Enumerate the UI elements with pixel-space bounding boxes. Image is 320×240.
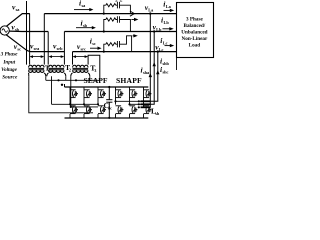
wire T1 sec right down to star bus <box>45 76 47 80</box>
SHAPF leg 1 top switch <box>116 90 124 98</box>
wire T1 sec left feed to SEAPF <box>29 76 93 113</box>
SEAPF leg 3 top switch <box>98 90 106 98</box>
inductor Lsh c-phase bar <box>141 100 151 102</box>
wire riser c <box>104 44 106 51</box>
wire phase c right segment <box>73 51 177 53</box>
wire T2 sec left feed to SEAPF <box>51 76 53 104</box>
svg-text:La: La <box>166 4 172 9</box>
inductor Lsh a-phase bar <box>141 106 151 108</box>
SEAPF leg 1 bottom switch <box>70 106 78 114</box>
wire source to phase b <box>9 30 48 32</box>
arrow v_srb measure <box>48 55 64 58</box>
arrow v_src measure <box>72 55 88 58</box>
junction dots on star bus <box>57 79 77 81</box>
RC branch phase a <box>104 2 131 14</box>
wire step down to line c <box>120 36 132 52</box>
svg-text:Load: Load <box>189 43 201 49</box>
svg-text:Unbalanced: Unbalanced <box>181 30 207 36</box>
node v_Lc <box>157 50 159 52</box>
wire T2 right rise to phase b <box>63 32 65 65</box>
arrow v_sra measure <box>29 55 44 58</box>
shunt tap wire c <box>150 52 158 102</box>
svg-text:2: 2 <box>69 68 71 73</box>
rail end dot <box>61 84 63 86</box>
RC branch phase c <box>104 36 132 52</box>
svg-text:srb: srb <box>57 46 64 51</box>
wire T3 sec left feed to SEAPF <box>71 76 98 107</box>
resistor Rse-b <box>106 18 117 21</box>
inductor Lsh b-phase bar <box>141 103 151 105</box>
SEAPF leg 2 top switch <box>84 90 92 98</box>
SEAPF leg 3 bottom switch <box>98 106 106 114</box>
svg-text:sb: sb <box>83 23 88 28</box>
svg-text:Non-Linear: Non-Linear <box>182 36 208 42</box>
capacitor Cse-a <box>117 2 119 8</box>
svg-text:sc: sc <box>17 46 21 51</box>
svg-text:sc: sc <box>92 41 96 46</box>
wire source to phase c <box>6 35 64 52</box>
SHAPF leg 3 bottom switch <box>144 106 152 114</box>
wire riser b <box>104 20 106 32</box>
wire vertical left of T1 <box>26 1 28 65</box>
capacitor Cse-c <box>117 41 119 47</box>
node dot b-rc <box>103 30 105 32</box>
svg-text:3 Phase: 3 Phase <box>0 52 18 58</box>
svg-text:3: 3 <box>94 68 96 73</box>
node dot a-rc <box>103 13 105 15</box>
arrow on branch b <box>131 18 138 21</box>
wire T3 right terminal corner to bridge <box>88 55 100 80</box>
wire T2 sec right down to star bus <box>65 76 67 80</box>
transformer T2 <box>47 65 66 76</box>
svg-text:Lc: Lc <box>163 41 168 46</box>
wire bottom dc rail <box>65 117 149 119</box>
svg-text:Balanced/: Balanced/ <box>184 23 206 29</box>
wire leg2 output <box>130 103 142 105</box>
SHAPF leg 2 bottom switch <box>130 106 138 114</box>
junction dots SEAPF mid <box>69 103 99 108</box>
wire down to line b <box>120 20 131 32</box>
wire phase b drop to T2 <box>47 32 49 65</box>
svg-text:3 Phase: 3 Phase <box>186 17 203 23</box>
dc bus rails <box>65 84 149 118</box>
wire phase a right segment <box>44 13 176 15</box>
arrow on branch c <box>133 34 138 37</box>
secondary wiring <box>29 76 100 113</box>
svg-text:Lb: Lb <box>156 27 162 32</box>
shunt tap wire b <box>150 32 154 105</box>
wire T3 sec right down to star bus <box>89 76 91 80</box>
transformer T1 <box>29 65 46 76</box>
load box <box>177 3 214 58</box>
capacitor label cropped <box>115 0 122 1</box>
svg-text:SHAPF: SHAPF <box>116 76 142 85</box>
dc link capacitor Cdc <box>106 87 112 118</box>
svg-text:shc: shc <box>163 69 169 74</box>
wire star bus <box>46 79 100 81</box>
svg-text:La: La <box>148 7 154 12</box>
svg-text:Source: Source <box>2 75 18 81</box>
node v_Lb <box>153 30 155 32</box>
open arrowhead on line a <box>130 11 135 16</box>
svg-text:src: src <box>81 46 87 51</box>
SHAPF leg 1 bottom switch <box>116 106 124 114</box>
shunt tap wire a <box>149 14 151 108</box>
svg-text:sb: sb <box>15 27 20 32</box>
wire phase a drop to T1 <box>29 14 31 65</box>
svg-text:Input: Input <box>2 59 15 65</box>
wire phase c drop to T3 <box>72 52 74 65</box>
SHAPF output wires <box>116 101 142 104</box>
node v_La <box>149 12 151 14</box>
resistor Rse-c <box>106 43 117 46</box>
svg-text:sra: sra <box>34 46 41 51</box>
node dot c-rc <box>103 51 105 53</box>
svg-text:Lc: Lc <box>159 47 164 52</box>
capacitor Cse-b <box>117 16 119 22</box>
wire down to line a <box>120 5 131 13</box>
svg-text:SEAPF: SEAPF <box>84 76 108 85</box>
svg-text:Voltage: Voltage <box>1 67 18 73</box>
SHAPF leg 2 top switch <box>130 90 138 98</box>
wire T1 right rise to phase a <box>43 14 45 65</box>
AC source Vs <box>0 26 9 35</box>
SEAPF leg 1 wire <box>69 87 71 118</box>
svg-text:sha: sha <box>143 70 150 75</box>
SEAPF leg 2 wire <box>83 87 85 118</box>
wire top dc rail <box>65 86 149 88</box>
SEAPF leg 1 top switch <box>70 90 78 98</box>
svg-text:shb: shb <box>163 61 170 66</box>
wire riser a <box>104 5 106 13</box>
svg-text:Lb: Lb <box>164 20 170 25</box>
wire phase b right segment <box>64 31 176 33</box>
SEAPF leg 3 wire <box>97 87 99 118</box>
rail left stub <box>64 84 66 87</box>
svg-text:sh: sh <box>155 111 160 116</box>
wire leg1 output <box>116 100 142 102</box>
SHAPF leg 3 wire <box>143 87 145 118</box>
SHAPF leg 3 top switch <box>144 90 152 98</box>
junction dots SHAPF outputs <box>114 100 139 108</box>
SHAPF leg 2 wire <box>129 87 131 118</box>
svg-text:dc: dc <box>108 105 112 110</box>
wire SEAPF ac mid bus <box>52 103 99 105</box>
SEAPF leg 2 bottom switch <box>84 106 92 114</box>
RC branch phase b <box>104 16 131 31</box>
load neutral stub <box>176 58 178 71</box>
transformer T3 <box>71 65 90 76</box>
wire source to phase a <box>6 14 30 27</box>
resistor Rse-a <box>106 4 117 7</box>
SHAPF leg 1 wire <box>115 87 117 118</box>
